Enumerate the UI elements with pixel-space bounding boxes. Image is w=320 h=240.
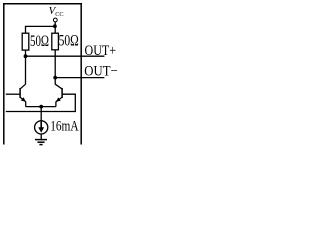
frame top border bbox=[3, 3, 82, 5]
wire OUT- bbox=[55, 77, 104, 79]
resistor R1 body bbox=[22, 33, 29, 50]
wire rail to R2 top bbox=[54, 26, 56, 33]
transistor Q1 base bar bbox=[19, 88, 21, 98]
wire emitter tail rail bbox=[26, 106, 56, 108]
VCC terminal bbox=[53, 18, 57, 22]
resistor R2 body bbox=[52, 33, 59, 50]
frame left border bbox=[3, 3, 5, 144]
svg-text:OUT+: OUT+ bbox=[85, 43, 117, 59]
wire R2 bottom to node B bbox=[54, 50, 56, 78]
transistor Q2 emitter arm bbox=[56, 97, 62, 101]
transistor Q2 collector arm bbox=[55, 84, 62, 89]
wire rail to R1 top bbox=[25, 26, 27, 33]
node B dot bbox=[53, 76, 57, 80]
ground symbol bar 3 bbox=[39, 144, 42, 146]
svg-text:VCC: VCC bbox=[49, 5, 64, 18]
wire node A to Q1 collector bbox=[25, 56, 27, 84]
transistor Q1 emitter arrowhead bbox=[21, 97, 26, 102]
svg-text:50Ω: 50Ω bbox=[59, 33, 79, 50]
current source arrowhead bbox=[38, 127, 44, 133]
ground symbol bar 1 bbox=[35, 139, 47, 141]
wire Q1 emitter to tail rail bbox=[25, 102, 27, 107]
wire Q1 base input bbox=[6, 93, 20, 95]
wire tail to current source bbox=[40, 107, 42, 121]
current source I1 circle bbox=[35, 121, 48, 134]
node A dot bbox=[24, 54, 28, 58]
wire R1 bottom to node A bbox=[25, 50, 27, 56]
svg-text:16mA: 16mA bbox=[50, 119, 79, 135]
transistor Q1 collector arm bbox=[20, 84, 25, 89]
svg-text:OUT−: OUT− bbox=[84, 64, 117, 80]
node tail dot bbox=[39, 105, 43, 109]
wire current source to ground bbox=[40, 134, 42, 140]
transistor Q2 emitter arrowhead bbox=[56, 97, 61, 101]
current source arrow shaft bbox=[40, 122, 42, 129]
wire VCC terminal to rail bbox=[54, 22, 56, 27]
wire node B to Q2 collector bbox=[54, 78, 56, 85]
wire Q2 base routing from left bbox=[6, 94, 76, 111]
frame right border bbox=[80, 3, 82, 144]
transistor Q1 emitter arm bbox=[20, 97, 25, 101]
wire Q2 emitter to tail rail bbox=[55, 102, 57, 107]
wire VCC rail bbox=[25, 25, 55, 27]
ground symbol bar 2 bbox=[37, 141, 44, 143]
svg-text:50Ω: 50Ω bbox=[30, 33, 49, 50]
transistor Q2 base bar bbox=[61, 88, 63, 98]
wire OUT+ bbox=[26, 55, 105, 57]
node VCC rail junction dot bbox=[53, 24, 57, 28]
